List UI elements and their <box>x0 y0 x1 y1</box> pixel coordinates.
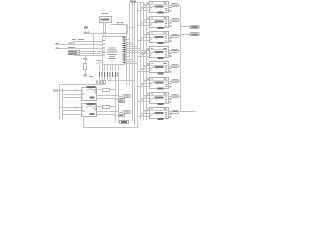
wire taps to relay K8 inputs <box>138 109 150 117</box>
wire relay K8 outputs <box>169 112 196 119</box>
node OUT7 net label <box>172 95 179 98</box>
node COM2 net label <box>190 33 200 36</box>
relay driver K2 <box>150 17 169 30</box>
node MOSI net label <box>56 43 76 45</box>
wire crystal legs to U1 XTAL pins <box>104 22 106 37</box>
wire taps to opto U4 <box>60 107 82 115</box>
wire U1 lower-left pin stubs <box>97 60 103 64</box>
resistor R2 reset pull-up <box>84 56 88 75</box>
wire opto U3 outputs <box>97 90 123 100</box>
wire taps to relay K1 inputs <box>138 3 150 11</box>
node crystal value label <box>101 13 108 14</box>
wire AVCC vertical <box>93 34 95 56</box>
node OUT6 net label <box>172 80 179 83</box>
node VIN flag <box>119 101 125 103</box>
wire taps to relay K4 inputs <box>138 49 150 57</box>
resistor R4 series <box>103 106 110 109</box>
wire taps to relay K3 inputs <box>138 33 150 41</box>
relay driver K3 <box>150 32 169 45</box>
wire taps to relay K2 inputs <box>138 18 150 26</box>
wire U1 left pin numbers <box>103 40 105 56</box>
node OUT5 net label <box>172 65 179 68</box>
wire relay K1 outputs <box>169 6 181 12</box>
node COM1 net label <box>190 26 200 29</box>
wire far-right return bus <box>180 6 182 112</box>
node IN2 net label <box>123 111 131 114</box>
wire bottom return <box>84 117 139 128</box>
wire taps to opto U3 <box>60 90 82 98</box>
relay driver K4 <box>150 47 169 60</box>
wire relay K6 outputs <box>169 82 181 88</box>
wire relay K5 outputs <box>169 67 181 73</box>
capacitor C1 C2 load caps on legs <box>103 33 107 34</box>
node IN1 net label <box>123 95 131 98</box>
wire relay K7 outputs <box>169 97 181 104</box>
transistor U3 opto-driver <box>82 86 97 101</box>
node VCC label row1 <box>72 39 84 40</box>
node GND flag <box>119 115 125 117</box>
wire relay K2 outputs <box>169 21 181 28</box>
node 5V net label <box>53 90 60 92</box>
node OUT4 net label <box>172 50 179 53</box>
wire ground rail under crystal <box>85 33 128 35</box>
wire serial signal lines to U1 <box>56 42 103 56</box>
resistor R5 R6 input series <box>96 81 106 84</box>
node DTR label <box>68 54 73 55</box>
node RST flag <box>69 53 80 55</box>
wire taps to relay K6 inputs <box>138 79 150 87</box>
wire relay K3 outputs <box>169 36 181 43</box>
node OUT1 net label <box>172 4 179 7</box>
wire taps to relay K7 inputs <box>138 94 150 102</box>
node SCK flag <box>69 51 80 53</box>
relay driver K1 <box>150 2 169 14</box>
wire relay K4 outputs <box>169 51 181 58</box>
relay driver K5 <box>150 62 169 75</box>
relay driver K6 <box>150 78 169 90</box>
wire routing from U1 bottom to opto inputs <box>100 78 105 85</box>
node VIN flag <box>120 121 129 124</box>
wire vertical bus between U1 and driver column <box>127 3 147 128</box>
node OUT8 net label <box>172 111 179 114</box>
resistor R3 series <box>103 89 110 92</box>
wire to COM net labels <box>181 27 190 35</box>
wire bus top rail <box>135 2 144 4</box>
ground <box>84 75 94 78</box>
resistor R1 <box>111 23 135 34</box>
wire taps to relay K5 inputs <box>138 64 150 72</box>
crystal Y1 <box>100 17 112 23</box>
wire routing collectors <box>60 78 135 123</box>
relay driver K8 <box>150 108 169 121</box>
wire U1 bottom pin stubs <box>99 65 119 78</box>
op-amp U1 microcontroller <box>103 37 125 65</box>
node OUT2 net label <box>172 19 179 22</box>
node MISO net label <box>56 47 76 49</box>
node OUT3 net label <box>172 35 179 38</box>
node VCC net label top of bus <box>130 1 136 3</box>
transistor U4 opto-driver <box>82 103 97 117</box>
wire U1 right pin stubs <box>123 37 147 64</box>
relay driver K7 <box>150 93 169 106</box>
wire left bus for optos <box>60 85 63 120</box>
node GND flag <box>119 99 125 101</box>
capacitor C3 decoupling pair <box>84 27 90 34</box>
wire opto U4 outputs <box>97 107 123 116</box>
